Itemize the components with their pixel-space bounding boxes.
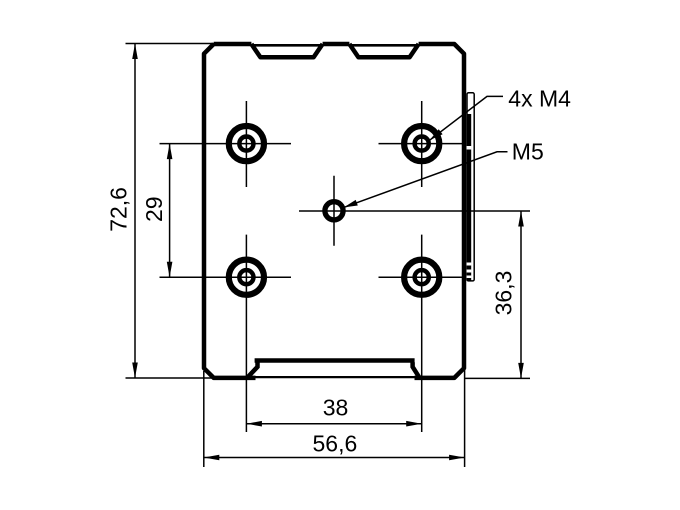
top notch left back edge bbox=[253, 44, 321, 47]
dimension 36,3 arrows bbox=[518, 211, 524, 378]
dimension 29 arrows bbox=[167, 144, 173, 278]
right strip bar gaps bbox=[467, 146, 472, 278]
bottom notch bbox=[247, 361, 420, 379]
dimension 29 line bbox=[169, 144, 171, 278]
dimension 56,6 extension lines bbox=[204, 370, 465, 467]
top notch right back edge bbox=[351, 44, 417, 47]
svg-text:M5: M5 bbox=[512, 139, 544, 165]
bottom notch back edge bbox=[247, 376, 420, 378]
top notch right bbox=[349, 44, 418, 57]
hole TR M4 bbox=[404, 126, 439, 161]
leader 4x M4 arrow bbox=[430, 129, 443, 140]
svg-text:4x M4: 4x M4 bbox=[508, 85, 571, 111]
leader M5 arrow bbox=[344, 200, 358, 208]
hole TL centerlines bbox=[160, 101, 292, 187]
hole BR M4 bbox=[404, 260, 439, 295]
dimension 56,6 arrows bbox=[204, 455, 465, 461]
leader 4x M4 bbox=[430, 96, 504, 140]
leader M5 bbox=[344, 152, 508, 208]
dimension 72,6 line bbox=[134, 44, 136, 379]
svg-text:29: 29 bbox=[141, 196, 167, 222]
right strip outline bbox=[467, 93, 474, 281]
dimension 38 arrows bbox=[246, 421, 421, 427]
body outline bbox=[204, 44, 464, 378]
dimension 36,3 extension line bottom bbox=[464, 377, 530, 379]
hole BR centerlines + 38 extension bbox=[379, 235, 465, 432]
center hole M5 bbox=[325, 202, 343, 220]
center hole M5 centerlines + 36,3 extension bbox=[299, 176, 530, 246]
dimension 72,6 arrows bbox=[132, 44, 138, 379]
hole BL centerlines + 38 extension bbox=[160, 235, 292, 432]
svg-text:38: 38 bbox=[323, 395, 349, 421]
dimension 36,3 line bbox=[520, 211, 522, 378]
hole TL M4 bbox=[229, 126, 264, 161]
svg-text:36,3: 36,3 bbox=[491, 271, 517, 316]
svg-text:72,6: 72,6 bbox=[106, 187, 132, 232]
right strip bar bbox=[467, 114, 471, 281]
dimension 72,6 extension lines bbox=[126, 44, 215, 379]
dimension 56,6 line bbox=[204, 457, 465, 459]
top notch left bbox=[251, 44, 322, 57]
svg-text:56,6: 56,6 bbox=[313, 431, 358, 457]
hole TR centerlines bbox=[379, 101, 465, 187]
dimension 38 line bbox=[246, 423, 421, 425]
hole BL M4 bbox=[229, 260, 264, 295]
